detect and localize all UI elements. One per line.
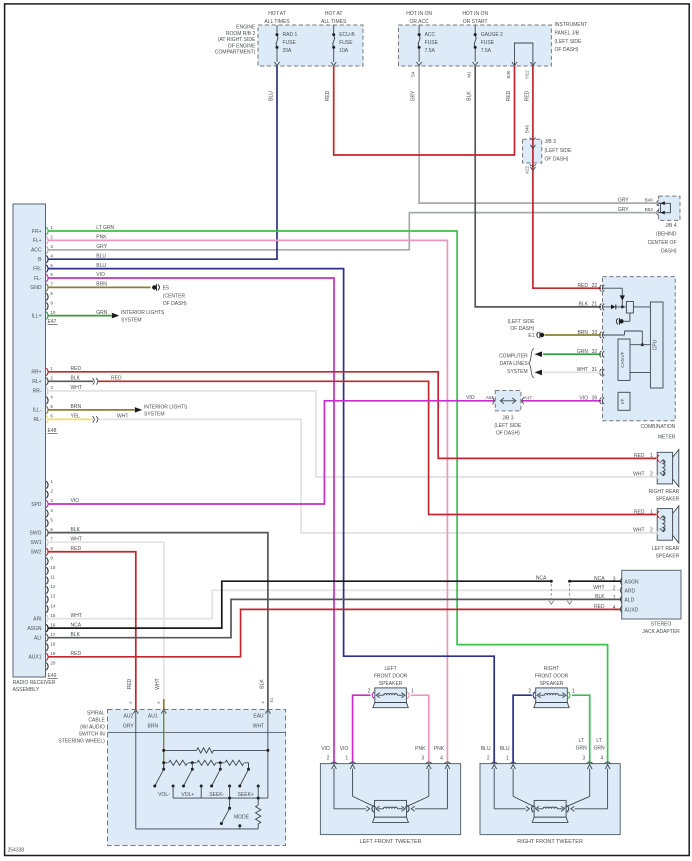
svg-text:DASH): DASH) (661, 249, 677, 255)
svg-text:SPD: SPD (31, 502, 42, 508)
svg-text:4: 4 (600, 756, 603, 762)
svg-text:CABLE: CABLE (88, 717, 105, 723)
svg-text:ILL-: ILL- (33, 408, 42, 414)
svg-text:SPEAKER: SPEAKER (379, 681, 403, 687)
svg-text:INTERIOR LIGHTS: INTERIOR LIGHTS (144, 404, 188, 410)
svg-text:19: 19 (50, 651, 56, 656)
svg-text:14: 14 (50, 603, 56, 608)
svg-text:A63: A63 (486, 395, 495, 400)
svg-text:OF DASH): OF DASH) (496, 431, 520, 437)
svg-text:BLU: BLU (500, 746, 510, 752)
svg-text:10: 10 (50, 310, 56, 315)
svg-text:E5: E5 (163, 285, 169, 291)
svg-text:STEERING WHEEL): STEERING WHEEL) (58, 739, 105, 745)
svg-text:B30: B30 (506, 70, 511, 79)
svg-text:S4: S4 (411, 71, 416, 77)
svg-text:B46: B46 (524, 125, 529, 134)
svg-text:FR+: FR+ (32, 229, 42, 235)
svg-text:OF DASH): OF DASH) (163, 301, 187, 307)
svg-text:SPEAKER: SPEAKER (540, 681, 564, 687)
svg-text:7.5A: 7.5A (481, 48, 492, 54)
svg-text:1: 1 (650, 509, 653, 515)
svg-text:E1: E1 (528, 333, 534, 339)
svg-text:1: 1 (613, 595, 616, 601)
svg-text:2: 2 (650, 472, 653, 478)
svg-text:PNK: PNK (434, 746, 445, 752)
svg-text:BLK: BLK (595, 594, 605, 600)
svg-text:OF DASH): OF DASH) (510, 326, 534, 332)
svg-text:FL+: FL+ (33, 238, 42, 244)
svg-text:OF DASH): OF DASH) (555, 47, 579, 53)
svg-text:FL-: FL- (34, 276, 42, 282)
svg-text:M1: M1 (467, 71, 472, 78)
svg-text:NCA: NCA (594, 576, 605, 582)
svg-text:AUXD: AUXD (625, 608, 639, 614)
svg-text:SPEAKER: SPEAKER (656, 554, 680, 560)
svg-text:LEFT FRONT TWEETER: LEFT FRONT TWEETER (359, 839, 421, 845)
svg-text:16: 16 (50, 622, 56, 627)
svg-text:HOT AT: HOT AT (325, 11, 343, 17)
svg-text:17: 17 (50, 632, 56, 637)
svg-text:CAN I/F: CAN I/F (620, 351, 625, 368)
svg-text:GRY: GRY (411, 90, 417, 101)
svg-text:ACC: ACC (31, 248, 42, 254)
svg-text:12: 12 (50, 584, 56, 589)
svg-text:7.5A: 7.5A (425, 48, 436, 54)
svg-text:15: 15 (50, 613, 56, 618)
svg-text:(LEFT SIDE: (LEFT SIDE (545, 148, 573, 154)
svg-text:RL-: RL- (33, 417, 41, 423)
svg-text:FUSE: FUSE (283, 40, 297, 46)
svg-text:PANEL J/B: PANEL J/B (555, 31, 580, 37)
svg-text:RL+: RL+ (32, 379, 41, 385)
svg-text:(CENTER: (CENTER (163, 293, 186, 299)
svg-text:J/B 3: J/B 3 (545, 139, 557, 145)
svg-text:RED: RED (127, 678, 133, 689)
svg-text:RAD 1: RAD 1 (283, 32, 298, 38)
svg-text:DATA LINES: DATA LINES (500, 361, 529, 367)
svg-text:VIO: VIO (466, 395, 475, 401)
svg-text:VOL-: VOL- (158, 792, 170, 798)
svg-text:RIGHT FRONT TWEETER: RIGHT FRONT TWEETER (517, 839, 583, 845)
svg-text:3: 3 (422, 756, 425, 762)
svg-text:3: 3 (613, 577, 616, 583)
svg-text:SEEK+: SEEK+ (238, 792, 254, 798)
svg-text:2: 2 (368, 689, 371, 695)
svg-text:FR-: FR- (33, 266, 42, 272)
svg-text:4: 4 (613, 605, 616, 611)
svg-text:WHT: WHT (155, 678, 161, 689)
svg-text:RR+: RR+ (31, 370, 41, 376)
svg-text:EAU: EAU (253, 714, 264, 720)
svg-text:OF DASH): OF DASH) (545, 156, 569, 162)
svg-text:RED: RED (594, 604, 605, 610)
svg-text:AU1: AU1 (148, 714, 158, 720)
svg-text:FUSE: FUSE (481, 40, 495, 46)
svg-text:ARD: ARD (625, 589, 636, 595)
svg-text:(LEFT SIDE: (LEFT SIDE (494, 423, 522, 429)
svg-text:2: 2 (327, 756, 330, 762)
svg-text:ASGN: ASGN (625, 579, 640, 585)
svg-text:RIGHT: RIGHT (544, 666, 560, 672)
svg-text:GRN: GRN (576, 746, 588, 752)
svg-text:SPEAKER: SPEAKER (656, 496, 680, 502)
svg-text:BLK: BLK (467, 91, 473, 101)
svg-text:OR ACC: OR ACC (410, 19, 430, 25)
svg-text:GAUGE 2: GAUGE 2 (481, 32, 503, 38)
svg-text:JACK ADAPTER: JACK ADAPTER (642, 629, 680, 635)
svg-text:2: 2 (650, 528, 653, 534)
svg-text:10: 10 (50, 565, 56, 570)
svg-text:SWITCH IN: SWITCH IN (79, 732, 105, 738)
svg-text:ALL TIMES: ALL TIMES (264, 19, 290, 25)
svg-text:SYSTEM: SYSTEM (507, 369, 528, 375)
svg-text:WHT: WHT (633, 528, 644, 534)
svg-text:RED: RED (634, 509, 645, 515)
svg-text:GRY: GRY (123, 724, 134, 730)
svg-text:FRONT DOOR: FRONT DOOR (374, 673, 408, 679)
svg-text:HOT IN ON: HOT IN ON (406, 11, 432, 17)
svg-text:1: 1 (411, 689, 414, 695)
svg-text:VIO: VIO (340, 746, 349, 752)
svg-text:2: 2 (528, 689, 531, 695)
svg-text:4: 4 (440, 756, 443, 762)
svg-text:ALD: ALD (625, 598, 635, 604)
svg-text:1: 1 (572, 689, 575, 695)
svg-text:OR START: OR START (463, 19, 488, 25)
svg-text:(BEHIND: (BEHIND (656, 232, 677, 238)
svg-text:ARI: ARI (33, 616, 41, 622)
svg-text:SYSTEM: SYSTEM (144, 412, 165, 418)
svg-text:1: 1 (345, 756, 348, 762)
svg-text:A22: A22 (524, 166, 529, 175)
svg-text:SW2: SW2 (31, 550, 42, 556)
svg-text:GND: GND (30, 285, 42, 291)
svg-text:FUSE: FUSE (425, 40, 439, 46)
svg-text:RADIO RECEIVER: RADIO RECEIVER (13, 680, 56, 686)
svg-text:21: 21 (592, 302, 598, 308)
svg-text:SEEK-: SEEK- (209, 792, 224, 798)
svg-text:1: 1 (506, 756, 509, 762)
svg-text:AUX1: AUX1 (28, 655, 41, 661)
svg-text:FUSE: FUSE (339, 40, 353, 46)
svg-text:ENGINE: ENGINE (236, 25, 256, 31)
svg-text:GRN: GRN (594, 746, 606, 752)
svg-text:13: 13 (50, 594, 56, 599)
svg-text:COMBINATION: COMBINATION (640, 424, 675, 430)
svg-text:(AT RIGHT SIDE: (AT RIGHT SIDE (218, 37, 256, 43)
svg-text:COMPUTER: COMPUTER (499, 353, 528, 359)
svg-text:2: 2 (613, 586, 616, 592)
svg-text:E2: E2 (269, 697, 274, 703)
svg-text:SYSTEM: SYSTEM (121, 317, 142, 323)
svg-text:2: 2 (487, 756, 490, 762)
svg-text:A17: A17 (524, 395, 533, 400)
svg-text:ASSEMBLY: ASSEMBLY (13, 687, 40, 693)
svg-text:VIO: VIO (321, 746, 330, 752)
svg-text:J/B 4: J/B 4 (665, 223, 677, 229)
svg-text:ASGN: ASGN (27, 626, 42, 632)
svg-text:LT: LT (578, 738, 583, 744)
svg-text:LEFT REAR: LEFT REAR (652, 546, 680, 552)
svg-text:WHT: WHT (253, 724, 264, 730)
svg-text:10A: 10A (339, 48, 349, 54)
svg-text:BLK: BLK (579, 302, 589, 308)
svg-text:WHT: WHT (633, 472, 644, 478)
svg-text:ILL+: ILL+ (32, 313, 42, 319)
svg-text:HOT IN ON: HOT IN ON (462, 11, 488, 17)
svg-text:AU2: AU2 (124, 714, 134, 720)
svg-text:WHT: WHT (593, 585, 604, 591)
svg-text:RED: RED (634, 453, 645, 459)
svg-text:RED: RED (577, 283, 588, 289)
svg-text:OF ENGINE: OF ENGINE (228, 43, 256, 49)
svg-text:BLU: BLU (269, 91, 275, 101)
svg-text:ECU-B: ECU-B (339, 32, 355, 38)
svg-text:1: 1 (650, 453, 653, 459)
svg-text:20: 20 (50, 661, 56, 666)
svg-text:ROOM R/B 2: ROOM R/B 2 (226, 31, 256, 37)
svg-text:LEFT: LEFT (384, 666, 396, 672)
svg-text:(LEFT SIDE: (LEFT SIDE (555, 39, 583, 45)
svg-text:COMPARTMENT): COMPARTMENT) (215, 50, 256, 56)
svg-text:RED: RED (506, 90, 512, 101)
svg-text:B53: B53 (645, 207, 654, 212)
svg-text:RED: RED (524, 90, 530, 101)
svg-text:VOL+: VOL+ (181, 792, 194, 798)
svg-text:22: 22 (592, 283, 598, 289)
svg-text:INTERIOR LIGHTS: INTERIOR LIGHTS (121, 310, 165, 316)
svg-text:BLK: BLK (259, 679, 265, 689)
svg-text:METER: METER (658, 435, 676, 441)
svg-text:ALL TIMES: ALL TIMES (321, 19, 347, 25)
svg-text:FRONT DOOR: FRONT DOOR (535, 673, 569, 679)
svg-text:BLU: BLU (481, 746, 491, 752)
svg-text:LT: LT (596, 738, 601, 744)
svg-text:18: 18 (50, 641, 56, 646)
svg-text:3: 3 (582, 756, 585, 762)
svg-text:I/F: I/F (620, 398, 625, 404)
svg-text:254338: 254338 (8, 848, 25, 854)
svg-text:INSTRUMENT: INSTRUMENT (555, 22, 588, 28)
svg-text:CENTER OF: CENTER OF (648, 240, 677, 246)
svg-text:RIGHT REAR: RIGHT REAR (649, 489, 680, 495)
svg-text:ACC: ACC (425, 32, 436, 38)
svg-text:STEREO: STEREO (651, 621, 672, 627)
svg-text:H12: H12 (524, 70, 529, 79)
svg-text:CPU: CPU (653, 339, 659, 350)
svg-text:B40: B40 (645, 198, 654, 203)
svg-text:HOT AT: HOT AT (268, 11, 286, 17)
svg-text:RR-: RR- (33, 389, 42, 395)
svg-text:11: 11 (50, 575, 55, 580)
svg-text:39: 39 (592, 396, 598, 402)
svg-text:SWG: SWG (30, 530, 42, 536)
svg-text:(LEFT SIDE: (LEFT SIDE (507, 319, 535, 325)
svg-text:J/B 3: J/B 3 (502, 415, 514, 421)
svg-text:VIO: VIO (579, 396, 588, 402)
svg-text:SPIRAL: SPIRAL (87, 710, 105, 716)
svg-text:BRN: BRN (148, 724, 159, 730)
svg-text:RED: RED (325, 90, 331, 101)
svg-text:NCA: NCA (536, 576, 547, 582)
svg-text:20A: 20A (283, 48, 293, 54)
svg-text:PNK: PNK (415, 746, 426, 752)
svg-text:(W/ AUDIO: (W/ AUDIO (80, 725, 105, 731)
svg-text:MODE: MODE (234, 814, 250, 820)
svg-text:ALI: ALI (34, 636, 42, 642)
svg-text:SW1: SW1 (31, 540, 42, 546)
